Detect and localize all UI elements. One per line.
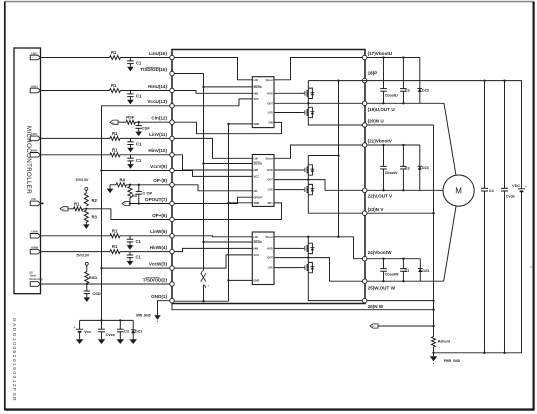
- pin GND(1): [151, 294, 174, 303]
- pin (21)VbootV: [362, 138, 392, 147]
- wire W LS drain: [307, 258, 309, 263]
- svg-text:OP-: OP-: [254, 189, 259, 193]
- transistor Q3 (V high-side): [299, 165, 314, 175]
- wire V HS source: [307, 175, 309, 179]
- wire P bus vertical: [337, 81, 339, 238]
- svg-text:R1: R1: [74, 201, 80, 206]
- net tag shunt-sense to OP: [60, 207, 68, 211]
- svg-text:SD/OD: SD/OD: [254, 85, 262, 89]
- svg-text:A/D: A/D: [31, 197, 36, 201]
- svg-text:C1: C1: [136, 142, 142, 147]
- svg-text:VccU(13): VccU(13): [147, 99, 167, 104]
- wire N U to shunt bus: [367, 124, 434, 126]
- capacitor CbootV: [380, 145, 398, 190]
- wire GND tap W: [229, 279, 253, 281]
- capacitor Cvdc: [501, 188, 515, 198]
- microcontroller pin LINU: [30, 51, 40, 60]
- svg-text:HVG: HVG: [267, 247, 273, 251]
- capacitor CbootW: [380, 259, 399, 282]
- power 5V/3.3V (RSD): [76, 254, 89, 266]
- transistor Q6 (W low-side): [299, 262, 314, 272]
- gate driver IC U1 box: [172, 50, 365, 304]
- ground PWR_GND: [430, 353, 461, 364]
- svg-text:OPOUT: OPOUT: [254, 195, 264, 199]
- wire HVG W: [274, 247, 299, 249]
- microcontroller pin A/D: [30, 197, 40, 206]
- wire SD bus tap W: [204, 241, 253, 243]
- svg-text:Monitoring: Monitoring: [30, 278, 43, 281]
- node OP+ divider junction: [85, 208, 87, 210]
- wire pin7 to OPOUT V-driver: [174, 197, 252, 203]
- svg-text:OUT: OUT: [267, 178, 273, 182]
- svg-text:OP+: OP+: [268, 201, 274, 205]
- svg-text:C1: C1: [136, 239, 142, 244]
- ground (C2): [117, 339, 125, 344]
- capacitor CSF: [135, 122, 150, 136]
- resistor R1 (LinU): [110, 50, 121, 59]
- svg-text:C1: C1: [136, 61, 142, 66]
- pin (20)N U: [362, 119, 384, 128]
- svg-text:22)V,OUT V: 22)V,OUT V: [368, 194, 394, 199]
- wire power ground rail: [434, 352, 523, 354]
- wire VbootW rail: [367, 258, 420, 260]
- transistor Q5 (W high-side): [299, 243, 314, 253]
- svg-text:GADG100620160012FSR: GADG100620160012FSR: [11, 318, 17, 402]
- svg-text:OP-(8): OP-(8): [153, 178, 167, 183]
- svg-text:R1: R1: [111, 50, 117, 55]
- wire pin14 to HIN U-driver: [174, 91, 252, 94]
- resistor R1 (HinU): [110, 83, 121, 92]
- svg-text:HinU(14): HinU(14): [148, 84, 167, 89]
- capacitor C2: [117, 320, 130, 339]
- svg-text:CbootU: CbootU: [385, 93, 398, 97]
- svg-text:DZ1: DZ1: [135, 329, 143, 334]
- wire pin4 to HIN W-driver: [174, 248, 252, 251]
- wire W LS source / N W: [308, 273, 362, 301]
- wire GND(1) to power ground bus: [172, 303, 434, 310]
- svg-text:LinV(11): LinV(11): [149, 132, 167, 137]
- svg-text:CbootW: CbootW: [385, 273, 399, 277]
- transistor Q1 (U high-side): [299, 88, 314, 98]
- svg-text:Vboot: Vboot: [265, 235, 272, 239]
- svg-text:GND: GND: [254, 279, 260, 283]
- svg-text:Cin(12): Cin(12): [151, 116, 167, 121]
- microcontroller pin I/O-Timer-Monitoring: [30, 271, 43, 286]
- capacitor C3 (U): [400, 58, 410, 104]
- wire LVG V: [274, 189, 299, 191]
- wire pin6 to OP+ V-driver: [174, 203, 281, 220]
- pin 24)VbootW: [362, 250, 392, 261]
- svg-text:CSF: CSF: [142, 126, 151, 131]
- svg-text:MIN_GND: MIN_GND: [136, 314, 151, 318]
- motor M: [443, 175, 474, 206]
- svg-text:GND: GND: [254, 122, 260, 126]
- pin LinW(5): [150, 229, 174, 238]
- svg-text:RSF: RSF: [126, 115, 135, 120]
- wire pin10 to HIN V-driver: [174, 155, 252, 170]
- svg-text:LVG: LVG: [268, 111, 273, 115]
- pin (23)N V: [362, 207, 384, 216]
- ground (Cvcc): [98, 339, 106, 344]
- svg-text:R1: R1: [112, 131, 118, 136]
- wire Vboot U route: [274, 58, 362, 80]
- wire driver GND bus: [227, 123, 229, 301]
- svg-text:RSD: RSD: [89, 275, 98, 280]
- zener diode DZ3 (U): [417, 58, 428, 104]
- wire pin16 to LIN U-driver: [174, 58, 252, 80]
- svg-text:24)VbootW: 24)VbootW: [368, 250, 393, 255]
- wire pin8 to OP- V-driver: [174, 185, 252, 191]
- ground (CSD): [84, 297, 91, 302]
- microcontroller pin LINV: [30, 132, 40, 141]
- svg-text:VccW(3): VccW(3): [149, 262, 168, 267]
- pin 25)W,OUT W: [362, 279, 395, 290]
- svg-text:VCC: VCC: [254, 97, 260, 101]
- svg-text:VccV(9): VccV(9): [150, 164, 167, 169]
- svg-text:C1: C1: [136, 94, 142, 99]
- document number text: [11, 318, 17, 402]
- pin OP+(6): [152, 213, 174, 222]
- V-phase driver block: [252, 155, 274, 207]
- svg-text:C3: C3: [405, 269, 410, 273]
- svg-text:LinW(5): LinW(5): [150, 229, 167, 234]
- wire OUT V: [274, 178, 362, 190]
- pin LinU(16): [149, 51, 175, 60]
- wire sense tap: [378, 325, 434, 327]
- svg-text:Vboot: Vboot: [265, 156, 272, 160]
- svg-text:R4: R4: [120, 177, 126, 182]
- resistor R1 (HinW): [110, 244, 120, 253]
- svg-text:DZ3: DZ3: [422, 269, 429, 273]
- svg-text:Vboot: Vboot: [265, 78, 272, 82]
- wire V HS drain: [307, 156, 309, 165]
- svg-text:M: M: [455, 187, 462, 196]
- microcontroller pin HINW: [30, 245, 40, 254]
- svg-text:C3: C3: [405, 166, 410, 170]
- resistor R1 (LinV): [110, 131, 120, 140]
- thermal sensor switch: [201, 270, 209, 301]
- wire U LS drain: [307, 103, 309, 107]
- pin VccU(13): [147, 99, 174, 108]
- svg-text:Vcc: Vcc: [84, 329, 92, 334]
- pin 22)V,OUT V: [362, 188, 393, 199]
- svg-text:C2: C2: [124, 329, 130, 334]
- svg-text:R1: R1: [111, 83, 117, 88]
- resistor R4: [110, 177, 127, 186]
- svg-text:DZ3: DZ3: [422, 88, 429, 92]
- svg-text:Rshunt: Rshunt: [438, 339, 451, 343]
- wire VbootU rail: [367, 56, 420, 58]
- wire pin3 to VCC W-driver: [174, 255, 252, 268]
- svg-text:LVG: LVG: [268, 188, 273, 192]
- resistor RSD: [85, 265, 98, 284]
- svg-text:26)N W: 26)N W: [368, 304, 384, 309]
- svg-text:HinV(10): HinV(10): [148, 148, 167, 153]
- resistor R3: [84, 210, 97, 224]
- svg-text:t: t: [208, 283, 209, 287]
- wire Vboot W route: [274, 236, 362, 259]
- svg-text:VDC: VDC: [512, 184, 520, 188]
- svg-text:5V/3.3V: 5V/3.3V: [76, 178, 89, 182]
- net tag shunt-sense to Cin: [110, 120, 118, 124]
- wire Vcc rail: [100, 106, 102, 321]
- svg-text:R1: R1: [112, 244, 118, 249]
- wire C4 branch: [483, 79, 485, 354]
- wire N W to shunt bus: [367, 299, 435, 301]
- wire V LS drain: [307, 180, 309, 185]
- wire pin13 to VCC U-driver: [174, 99, 252, 106]
- svg-text:GND: GND: [254, 201, 260, 205]
- wire OP- to pin 8: [127, 184, 170, 186]
- svg-text:OUT: OUT: [267, 101, 273, 105]
- svg-text:HINU: HINU: [31, 84, 38, 88]
- wire pin12 to CIN U-driver: [174, 122, 281, 134]
- svg-text:Cvdc: Cvdc: [506, 195, 515, 199]
- svg-text:OP+(6): OP+(6): [152, 213, 167, 218]
- svg-text:(21)VbootV: (21)VbootV: [368, 138, 393, 143]
- capacitor CbootU: [380, 58, 398, 104]
- pin 26)N W: [362, 298, 383, 309]
- svg-text:HinW(4): HinW(4): [150, 245, 168, 250]
- wire HINV: [40, 154, 169, 156]
- svg-text:CIN: CIN: [268, 121, 273, 125]
- wire pin9 to VCC V-driver: [174, 171, 252, 177]
- capacitor C3 (V): [400, 145, 410, 190]
- resistor R1 (HinV): [110, 147, 120, 156]
- svg-text:C OP: C OP: [142, 190, 152, 195]
- pin 18)P: [362, 71, 377, 83]
- capacitor C OP: [136, 185, 153, 204]
- capacitor C1 (HinW): [127, 252, 142, 266]
- wire VDC branch: [521, 81, 523, 353]
- wire OUT V to motor: [367, 189, 443, 191]
- wire GND tap U: [229, 123, 253, 125]
- wire OUT U to motor: [367, 102, 456, 175]
- microcontroller pin HINV: [30, 149, 40, 158]
- wire GND tap V: [229, 202, 253, 204]
- svg-text:(23)N V: (23)N V: [368, 207, 385, 212]
- svg-text:(19)U,OUT U: (19)U,OUT U: [368, 107, 396, 112]
- wire pin15 to SD bus: [174, 73, 203, 75]
- pin HinV(10): [148, 148, 174, 157]
- capacitor C4: [481, 188, 495, 193]
- wire T/SD/OD(2): [40, 283, 169, 285]
- wire VccU: [102, 105, 170, 107]
- svg-text:PWR_GND: PWR_GND: [444, 359, 461, 363]
- wire OUT W: [274, 256, 362, 281]
- transistor Q2 (U low-side): [299, 107, 314, 117]
- svg-text:R2: R2: [92, 198, 98, 203]
- wire VccV: [102, 170, 170, 172]
- power source VDC: [512, 184, 527, 192]
- wire V LS source / N V: [308, 195, 362, 213]
- capacitor CSD: [84, 284, 101, 297]
- wire VbootV rail: [367, 144, 420, 146]
- power 5V/3.3V (OP divider): [76, 178, 89, 190]
- resistor R1 (OP input): [68, 201, 86, 210]
- svg-text:HIN: HIN: [254, 168, 259, 172]
- A/D pin stub: [40, 202, 43, 204]
- wire SD bus tap V: [204, 163, 253, 165]
- svg-text:HVG: HVG: [267, 91, 273, 95]
- resistor Rshunt: [432, 337, 451, 347]
- capacitor C1 (LinW): [127, 236, 142, 250]
- resistor R2: [84, 190, 97, 205]
- pin (17)VbootU: [362, 51, 392, 60]
- wire U LS source / N U: [308, 118, 362, 125]
- wire LVG U: [274, 112, 299, 114]
- svg-text:R1: R1: [112, 228, 118, 233]
- wire OUT U: [274, 102, 362, 104]
- wire shunt bus: [432, 125, 434, 337]
- svg-text:5V/3.3V: 5V/3.3V: [76, 254, 89, 258]
- svg-text:SD/OD: SD/OD: [254, 240, 262, 244]
- svg-text:18)P: 18)P: [368, 71, 378, 76]
- ground (R3): [83, 224, 90, 229]
- svg-text:C1: C1: [136, 158, 142, 163]
- svg-text:GND(1): GND(1): [151, 294, 167, 299]
- capacitor C1 (HinV): [127, 155, 142, 169]
- svg-text:CbootV: CbootV: [385, 171, 398, 175]
- pin OP-(8): [153, 178, 174, 187]
- wire Cvdc branch: [503, 79, 505, 354]
- microcontroller pin LINW: [30, 230, 40, 239]
- svg-text:HIN: HIN: [254, 247, 259, 251]
- wire Vboot V route: [274, 145, 362, 158]
- resistor R5: [128, 185, 138, 204]
- ground (Vcc): [76, 339, 84, 344]
- net tag shunt-sense (bottom): [370, 324, 378, 328]
- net tag OPOUT: [122, 201, 130, 205]
- svg-text:+: +: [73, 325, 75, 329]
- wire SD/OD bus: [202, 74, 204, 271]
- svg-text:(17)VbootU: (17)VbootU: [368, 51, 393, 56]
- svg-text:LVG: LVG: [268, 266, 273, 270]
- svg-text:LINV: LINV: [31, 132, 37, 136]
- wire OUT W to motor: [367, 206, 456, 282]
- wire SD bus tap U: [204, 86, 253, 88]
- wire GND rail to pin1: [174, 300, 228, 302]
- wire HINU: [40, 90, 169, 92]
- microcontroller U2 box: [14, 48, 41, 294]
- wire U HS source: [307, 99, 309, 104]
- wire HVG U: [274, 92, 299, 94]
- svg-text:R1: R1: [112, 147, 118, 152]
- pin HinW(4): [150, 245, 175, 254]
- wire OP+ to pin 6: [86, 209, 169, 220]
- svg-text:LINW: LINW: [31, 230, 38, 234]
- capacitor C1 (LinV): [127, 138, 142, 152]
- svg-text:25)W,OUT W: 25)W,OUT W: [368, 285, 396, 290]
- capacitor C3 (W): [400, 259, 409, 282]
- svg-text:OUT: OUT: [267, 256, 273, 260]
- wire P rail: [308, 79, 522, 81]
- capacitor C1 (LinU): [127, 58, 142, 72]
- ground MIN_GND: [136, 314, 161, 322]
- zener diode DZ1: [131, 320, 143, 339]
- pin Cin(12): [151, 116, 174, 125]
- resistor R1 (LinW): [110, 228, 120, 237]
- wire LINV: [40, 137, 169, 139]
- svg-text:(20)N U: (20)N U: [368, 119, 385, 124]
- zener diode DZ3 (V): [417, 145, 428, 190]
- svg-text:LIN: LIN: [254, 235, 258, 239]
- wire OPOUT to pin 7: [129, 202, 170, 204]
- svg-text:C3: C3: [405, 89, 410, 93]
- svg-text:VCC: VCC: [254, 175, 260, 179]
- wire V HS drain rail: [308, 155, 338, 157]
- wire W HS source: [307, 254, 309, 258]
- transistor Q4 (V low-side): [299, 184, 314, 194]
- wire GND(1) to MIN_GND: [158, 301, 170, 316]
- svg-text:R3: R3: [92, 215, 98, 220]
- wire LINW: [40, 235, 169, 237]
- svg-text:LINU: LINU: [31, 51, 37, 55]
- svg-text:CSD: CSD: [92, 291, 101, 296]
- svg-text:LIN: LIN: [254, 78, 258, 82]
- wire Cin: [118, 121, 170, 123]
- wire W HS drain: [307, 237, 309, 243]
- wire pin5 to LIN W-driver: [174, 236, 252, 237]
- pin VccW(3): [149, 262, 174, 271]
- zener diode DZ3 (W): [418, 259, 429, 282]
- svg-text:Cvcc: Cvcc: [106, 332, 116, 337]
- capacitor C1 (HinU): [127, 91, 142, 105]
- wire pin11 to LIN V-driver: [174, 138, 252, 158]
- pin T/SD/OD(15): [140, 67, 174, 76]
- wire HINW: [40, 251, 169, 253]
- svg-text:HIN: HIN: [254, 91, 259, 95]
- svg-text:LinU(16): LinU(16): [149, 51, 168, 56]
- wire U HS drain: [307, 81, 309, 89]
- svg-text:SD/OD: SD/OD: [254, 162, 262, 166]
- microcontroller pin HINU: [30, 84, 40, 93]
- wire N V to shunt bus: [367, 212, 435, 214]
- pin OPOUT(7): [145, 197, 174, 206]
- pin (19)U,OUT U: [362, 101, 395, 112]
- ground (DZ1): [129, 339, 137, 344]
- power source Vcc: [73, 320, 92, 339]
- svg-text:HVG: HVG: [267, 168, 273, 172]
- U-phase driver block: [252, 77, 274, 128]
- svg-text:HINV: HINV: [31, 149, 38, 153]
- svg-text:DZ3: DZ3: [422, 166, 429, 170]
- svg-text:C1: C1: [136, 255, 142, 260]
- wire VccW: [102, 267, 170, 269]
- pin VccV(9): [150, 164, 174, 173]
- wire Vcc supply rail: [80, 319, 134, 321]
- svg-text:OPOUT(7): OPOUT(7): [145, 197, 167, 202]
- svg-text:HINW: HINW: [31, 245, 39, 249]
- pin T/SD/OD(2): [143, 277, 175, 286]
- pin HinU(14): [148, 84, 174, 93]
- svg-text:T/SD/OD(15): T/SD/OD(15): [140, 67, 167, 72]
- ground (R4): [107, 185, 114, 193]
- capacitor Cvcc: [98, 320, 116, 339]
- W-phase driver block: [252, 232, 274, 285]
- pin LinV(11): [149, 132, 174, 141]
- svg-text:VCC: VCC: [254, 253, 260, 257]
- wire HVG V: [274, 169, 299, 171]
- wire shunt to ground rail: [432, 347, 434, 354]
- wire LVG W: [274, 267, 299, 269]
- svg-text:LIN: LIN: [254, 156, 258, 160]
- wire LINU: [40, 57, 169, 59]
- resistor RSF: [126, 115, 135, 125]
- svg-text:T/SD/OD(2): T/SD/OD(2): [143, 277, 168, 282]
- svg-text:+: +: [525, 185, 527, 189]
